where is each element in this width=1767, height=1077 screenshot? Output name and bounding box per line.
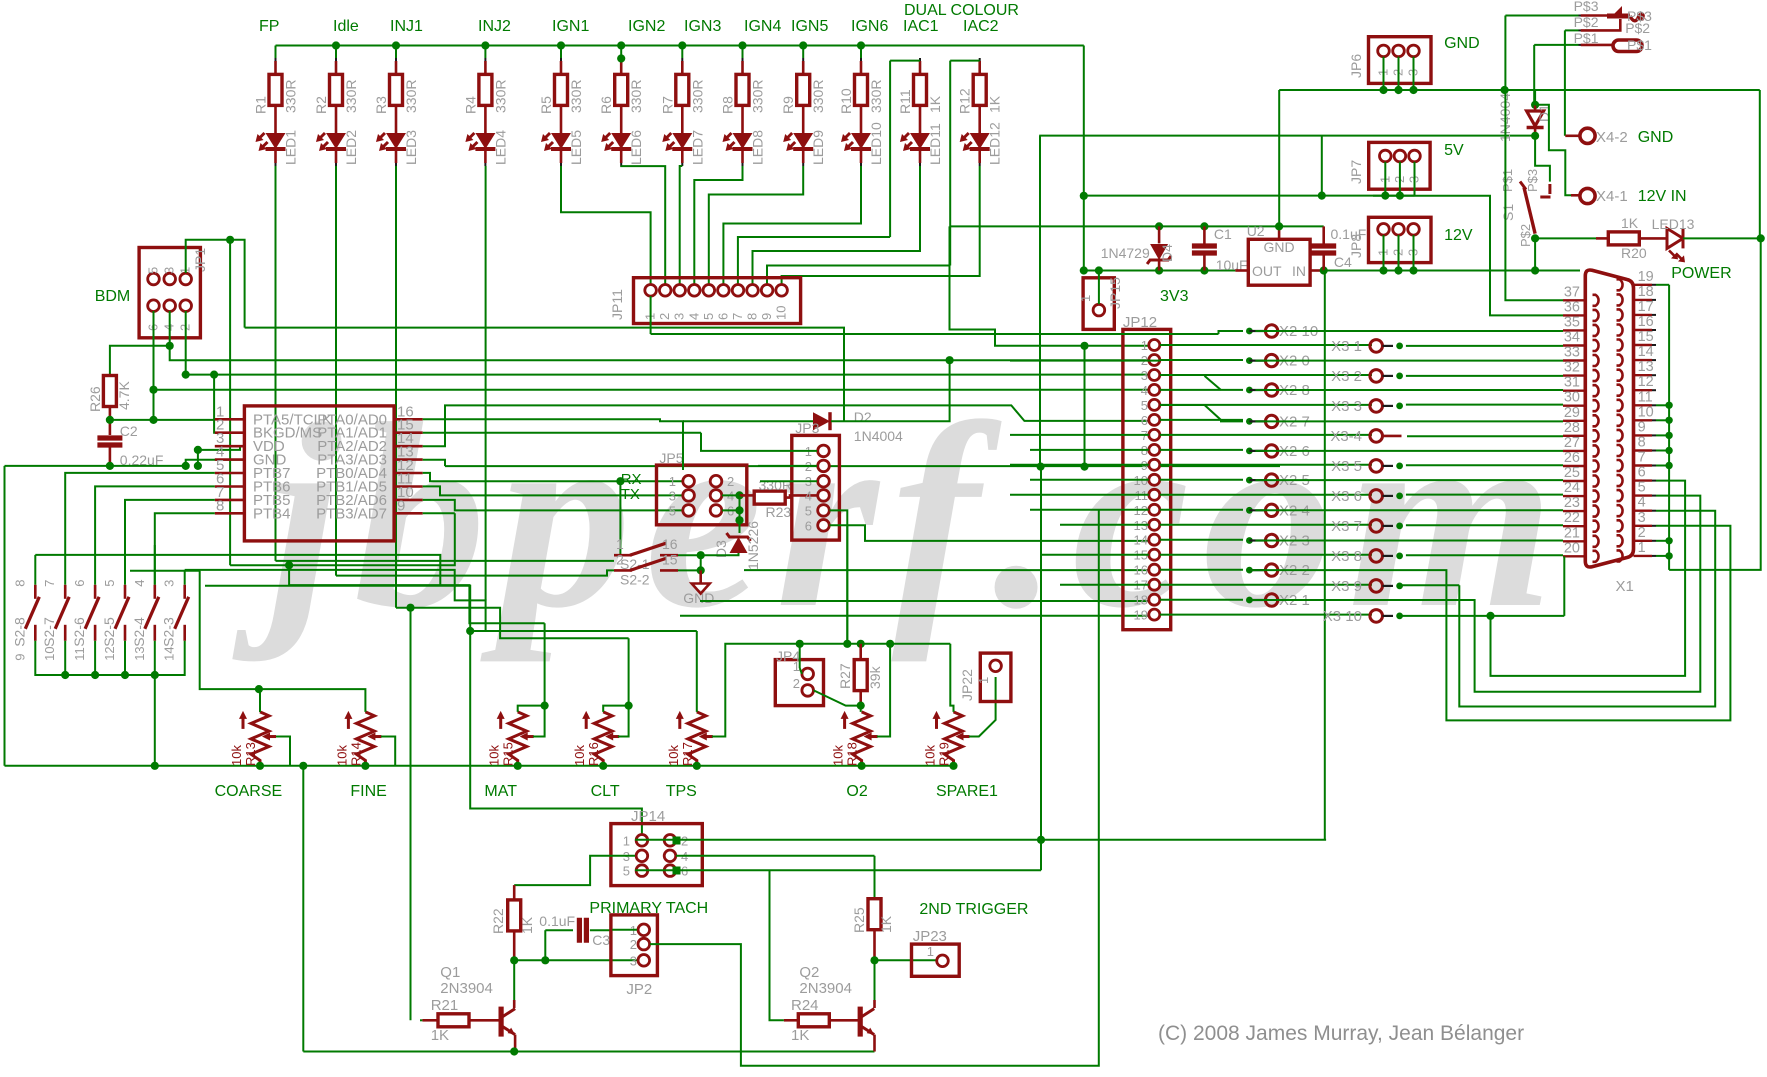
junction node col4 [481,41,489,49]
svg-text:19: 19 [1134,608,1148,623]
svg-text:GND: GND [1638,129,1674,146]
wire 3v3 staircase to JP12 [950,226,1149,345]
svg-text:X4-1: X4-1 [1596,188,1628,205]
svg-text:17: 17 [1638,299,1654,315]
svg-text:1K: 1K [878,915,894,933]
svg-text:CLT: CLT [591,783,620,800]
svg-text:R7: R7 [659,96,675,114]
connector JP8 [1369,217,1432,262]
svg-text:R20: R20 [1621,245,1647,261]
svg-text:IGN3: IGN3 [684,18,721,35]
wire R12 top feed [950,60,980,62]
transistor Q1 2N3904 [513,960,515,1000]
svg-text:32: 32 [1564,360,1580,376]
svg-text:10k: 10k [831,745,846,766]
svg-text:21: 21 [1564,525,1580,541]
connector JP22 [980,653,1011,701]
svg-text:LED2: LED2 [343,130,359,165]
svg-text:(C) 2008 James Murray, Jean Bé: (C) 2008 James Murray, Jean Bélanger [1158,1022,1524,1045]
wire JP3 pin2 [758,465,817,467]
wire mid row 320 right [1010,360,1160,362]
svg-text:R9: R9 [780,96,796,114]
wire R25 to JP23 [875,959,937,961]
wire JP5 pin2 up [682,421,684,470]
resistor R23 330R [740,494,755,497]
svg-text:X3 8: X3 8 [1331,548,1362,565]
wire R11 top feed [890,60,920,62]
wire R1-LED1 [274,105,277,133]
svg-text:R16: R16 [586,742,601,766]
pad X2_6 [1246,448,1253,455]
wire X2_10 jog [1219,331,1244,334]
svg-text:7: 7 [730,313,745,320]
svg-text:R24: R24 [791,997,819,1014]
svg-text:R21: R21 [431,997,459,1014]
pad X2_1 [1246,597,1253,604]
svg-text:R14: R14 [348,742,363,766]
svg-text:9: 9 [1638,419,1646,435]
svg-text:FP: FP [259,18,279,35]
svg-text:IGN2: IGN2 [628,18,665,35]
connector JP7 [1369,142,1430,189]
svg-text:6: 6 [72,580,87,587]
transistor Q2 2N3904 [874,960,876,1000]
junction node col8 [738,41,746,49]
svg-text:C1: C1 [1214,226,1232,242]
svg-text:TX: TX [621,486,640,503]
svg-text:1: 1 [976,677,991,684]
wire PTA1 right [423,432,701,434]
svg-text:2: 2 [1638,525,1646,541]
svg-text:X3 10: X3 10 [1323,608,1362,625]
wire GND bus down right edge [1759,90,1761,238]
wire X1 pin37 feed [1505,90,1563,300]
wire JP12 pin rows left [1010,434,1149,436]
connector JP5 [657,465,747,525]
svg-text:6: 6 [715,313,730,320]
svg-text:10k: 10k [923,745,938,766]
wire JP1 pin2 down [185,311,187,375]
svg-text:2ND TRIGGER: 2ND TRIGGER [919,901,1028,918]
svg-text:JP5: JP5 [659,450,683,466]
svg-text:5V: 5V [1444,142,1464,159]
wire R10-LED10 [860,105,863,133]
potentiometer R15 [509,712,527,766]
svg-text:jbperf.com: jbperf.com [230,370,1567,663]
svg-text:POWER: POWER [1671,265,1731,282]
wire C3 left down [544,930,546,960]
svg-text:8: 8 [216,497,224,514]
LED LED7 [672,133,692,149]
wire X1 vertical right [1668,285,1670,570]
svg-text:330R: 330R [568,80,584,113]
wire RX-S2-1 [619,481,621,555]
svg-text:JP1: JP1 [192,248,208,272]
wire JP3 pin1 left [701,433,817,451]
pad X2_0 [1246,357,1253,364]
svg-text:INJ1: INJ1 [390,18,423,35]
connector JP11 [634,278,801,324]
svg-text:LED5: LED5 [568,130,584,165]
LED LED2 [326,133,346,149]
svg-text:10k: 10k [666,745,681,766]
wire LED13 right [1683,237,1761,239]
resistor R21 1K [420,1019,422,1021]
svg-text:10k: 10k [487,745,502,766]
svg-text:R10: R10 [838,88,854,114]
wire R13 top [259,706,261,712]
pad X2_5 [1246,477,1253,484]
connector X1 DB37 [1585,270,1633,567]
resistor R5 [560,58,562,61]
wire JP5 pin6 right [722,509,740,511]
resistor R10 [860,58,862,61]
wire vdd node [194,446,202,454]
wire JP3 pin5 [830,510,848,643]
wire D1 bottom to P$3 pad [1535,136,1550,182]
switch S2-6 [94,585,97,599]
svg-text:1: 1 [623,833,630,848]
wire R5-LED5 [560,105,563,133]
pad X2_10 [1246,328,1253,335]
svg-text:JP3: JP3 [795,420,819,436]
svg-text:3: 3 [1638,510,1646,526]
svg-text:15: 15 [1638,329,1654,345]
svg-text:IAC2: IAC2 [963,18,999,35]
svg-text:36: 36 [1564,299,1580,315]
switch S2-7 [64,585,67,599]
svg-text:4: 4 [686,313,701,320]
wire R4-LED4 [484,105,487,133]
svg-text:3: 3 [630,953,637,968]
wire R17 top [696,631,698,712]
svg-text:10: 10 [774,306,789,320]
wire R14 wiper [381,737,395,766]
wire PTA0 right [423,419,684,421]
wire X2 rows to X1 [1255,330,1563,332]
pad X2_3 [1246,537,1253,544]
svg-text:R26: R26 [87,386,103,412]
wire JP12 rows to pads [1160,344,1372,346]
wire JP1 pin6 down [153,311,155,420]
wire LED8 to JP11 pin4 [694,166,742,284]
wire collector bus [514,959,637,961]
wire P$2 drop [1564,30,1566,135]
wire LED1 down [275,166,277,561]
svg-text:PRIMARY TACH: PRIMARY TACH [589,900,708,917]
wire PTB1 TX long [423,486,689,495]
resistor R27 39k [859,644,862,660]
svg-text:10: 10 [42,646,57,660]
svg-text:5: 5 [701,313,716,320]
capacitor C1 10uF [1203,226,1206,244]
wire P$1 drop [1533,45,1535,105]
wire X1 right pins dots [1665,402,1672,409]
wire R19 top [950,644,953,712]
wire X3 rows to X1 [1406,345,1563,347]
wire S1 bottom [1534,236,1536,271]
wire out rail [1084,270,1236,272]
switch S2-8 [34,585,37,599]
svg-text:9: 9 [12,654,27,661]
resistor R4 [484,58,486,61]
svg-text:P$1: P$1 [1500,169,1515,192]
wire Q2 emitter [873,1035,876,1052]
wire PTB6 to switch [95,486,215,584]
LED LED8 [733,133,753,149]
resistor R8 [742,58,744,61]
svg-text:5: 5 [805,503,812,518]
svg-text:DUAL COLOUR: DUAL COLOUR [904,2,1019,19]
wire JP4 pin2 diag [814,690,861,705]
junction node col1 [275,46,277,59]
svg-text:7: 7 [42,580,57,587]
svg-text:O2: O2 [846,783,867,800]
svg-text:P$2: P$2 [1625,20,1650,36]
svg-text:4: 4 [1141,383,1148,398]
svg-text:6: 6 [1638,465,1646,481]
svg-text:Q1: Q1 [440,964,460,981]
connector JP6 [1369,37,1432,84]
svg-text:R4: R4 [462,96,478,114]
svg-text:GND: GND [1444,35,1480,52]
wire R9-LED9 [802,105,805,133]
wire row 615.7 [680,615,1149,617]
svg-text:R3: R3 [373,96,389,114]
svg-text:JP7: JP7 [1348,160,1364,184]
svg-text:LED11: LED11 [927,123,943,165]
diode D2 1N4004 [813,412,830,430]
wire X3_10 vert to pin20 [1563,556,1565,616]
svg-text:12V: 12V [1444,227,1473,244]
svg-text:20: 20 [1564,540,1580,556]
wire jp14 pin1 feed [470,631,642,834]
svg-text:4: 4 [805,488,812,503]
junction IGN2 stub [617,54,625,62]
diode D1 1N4004 [1534,90,1536,105]
wire JP3 pin3 [760,480,817,482]
svg-text:6: 6 [805,518,812,533]
wire R11-LED11 [919,105,922,133]
svg-text:0.1uF: 0.1uF [1331,226,1367,242]
wire pot bottom bus [5,765,954,767]
svg-text:R5: R5 [538,96,554,114]
wire X1 pin19 right [1656,284,1669,286]
svg-text:R25: R25 [851,907,867,933]
svg-text:Q2: Q2 [799,964,819,981]
svg-text:9: 9 [759,313,774,320]
wire mid bus y327 [245,328,844,422]
wire pin1 loop to right edge [1669,238,1761,570]
svg-text:GND: GND [1263,239,1294,255]
svg-text:LED6: LED6 [628,130,644,165]
wire S2-2 right [678,569,701,571]
svg-text:R27: R27 [837,663,853,689]
resistor R20 1K [1596,237,1609,240]
wire emitter bus [299,762,307,770]
svg-text:C4: C4 [1334,254,1352,270]
wire LED10 to JP11 pin6 [723,166,861,284]
wire R18 wiper [877,644,890,737]
svg-text:13: 13 [132,646,147,660]
wire R19 wiper to JP22 [969,677,996,737]
ground symbol [692,584,710,594]
svg-text:8: 8 [12,580,27,587]
switch S2-1 [614,554,632,557]
svg-text:330R: 330R [810,80,826,113]
svg-text:R2: R2 [313,96,329,114]
svg-text:OUT: OUT [1252,263,1282,279]
wire JP14 pin2 to 12V drop [635,839,1326,841]
switch S1 [1520,182,1526,190]
svg-text:LED9: LED9 [810,130,826,165]
svg-text:1: 1 [1638,540,1646,556]
wire jp11 bottom rows [651,333,1219,335]
svg-text:P$1: P$1 [1574,30,1599,46]
junction node col6 [617,41,625,49]
svg-text:IAC1: IAC1 [903,18,939,35]
svg-text:Idle: Idle [333,18,359,35]
svg-text:10k: 10k [572,745,587,766]
wire X2_7 jog right [1160,405,1243,421]
wire D3 to GND [701,553,739,555]
svg-text:30: 30 [1564,390,1580,406]
wire sw bus drop [154,675,156,766]
svg-text:14: 14 [1638,344,1654,360]
wire 12V line right [1324,270,1580,272]
wire GND bus [1279,89,1760,91]
svg-text:9: 9 [397,497,405,514]
svg-text:6: 6 [1141,413,1148,428]
connector JP4 [775,660,823,706]
wire R26-C2 [109,406,112,435]
svg-text:5: 5 [1141,398,1148,413]
svg-text:R12: R12 [957,88,973,114]
resistor R22 1K [513,885,516,900]
wire D2 line [683,420,813,422]
wire gnd to IC pin4 [186,460,245,466]
wire X1 loops [1249,526,1730,721]
svg-text:R15: R15 [501,742,516,766]
wire top bus drop right [1083,46,1085,196]
svg-text:5: 5 [1638,480,1646,496]
svg-text:10: 10 [1638,404,1654,420]
svg-text:IGN4: IGN4 [744,18,781,35]
wire X1 pin36 feed [1373,196,1563,316]
connector JP3 [792,435,840,540]
junction node col2 [332,41,340,49]
svg-text:12: 12 [1638,374,1654,390]
wire R15 top/wiper [518,706,545,712]
wire R8-LED8 [741,105,744,133]
resistor R2 [335,58,337,61]
wire PTA3 jog [423,460,445,466]
resistor R1 [275,58,277,61]
svg-text:X3 7: X3 7 [1331,518,1362,535]
wire JP3 pin6 [830,525,1149,541]
wire R2-LED2 [335,105,338,133]
wire X2_8 diag deco [1205,376,1222,390]
zener D4 1N4729 [1158,226,1161,243]
wire PTA2 right [423,405,1149,446]
junction node col7 [678,41,686,49]
svg-text:3: 3 [1141,368,1148,383]
svg-text:P$2: P$2 [1518,224,1533,247]
connector JP1 BDM [139,248,200,338]
wire X3_10 to vertical [1400,615,1565,617]
svg-text:35: 35 [1564,314,1580,330]
wire 5V drop mid [1039,136,1041,467]
svg-text:JP15: JP15 [1107,277,1123,309]
svg-text:X3 1: X3 1 [1331,338,1362,355]
svg-text:X3 5: X3 5 [1331,458,1362,475]
wire gnd to U2 [1278,90,1280,226]
resistor R6 [620,58,622,61]
wire LED2 to S2-2 [336,570,614,575]
wire S2-3 top [184,570,186,585]
svg-text:X3-4: X3-4 [1330,428,1362,445]
wire tps feed [205,586,470,631]
LED LED11 [910,133,930,149]
svg-text:LED12: LED12 [987,122,1003,165]
wire PTB4 to switch [155,513,215,585]
pad X4-1 12V IN [1580,188,1595,203]
svg-text:1: 1 [669,474,676,489]
svg-text:19: 19 [1638,269,1654,285]
wire JP5 pin4 to R23 [722,494,740,496]
svg-text:1: 1 [616,536,624,552]
zener D3 1N5226 [727,533,751,541]
svg-text:330R: 330R [868,80,884,113]
connector JP12 [1123,329,1171,629]
wire JP2 pin2 route [650,510,1099,1066]
svg-text:C3: C3 [592,932,610,948]
svg-text:4.7K: 4.7K [116,381,132,410]
wire D2 right [831,360,950,421]
svg-text:1: 1 [1141,338,1148,353]
svg-text:X1: X1 [1616,578,1634,595]
LED LED10 [851,133,871,149]
svg-text:D4: D4 [1159,244,1175,262]
svg-text:TPS: TPS [666,783,697,800]
potentiometer R17 [688,712,706,766]
svg-text:25: 25 [1564,465,1580,481]
svg-text:R11: R11 [897,89,913,114]
svg-text:10k: 10k [334,745,349,766]
LED LED5 [551,133,571,149]
pad X2_7 [1246,418,1253,425]
svg-text:X4-2: X4-2 [1596,129,1628,146]
pad X4-2 GND [1580,128,1595,143]
svg-text:R6: R6 [598,96,614,114]
pad X2_8 [1246,387,1253,394]
potentiometer R16 [594,712,612,766]
svg-text:34: 34 [1564,330,1580,346]
svg-text:1K: 1K [1621,215,1639,231]
svg-text:S2-6: S2-6 [71,617,87,647]
svg-text:1N4729: 1N4729 [1101,245,1150,261]
wire staircase A [230,513,455,565]
wire R11 to JP11 pin7 [738,237,890,284]
potentiometer R13 [251,712,269,766]
svg-text:R8: R8 [720,96,736,114]
svg-text:S2-8: S2-8 [11,617,27,647]
wire LED6 to JP11 pin2 [621,166,665,284]
svg-text:5: 5 [623,864,630,879]
svg-text:3: 3 [162,267,177,274]
regulator U2 [1248,239,1310,285]
wire S1 to R20 [1535,237,1596,239]
